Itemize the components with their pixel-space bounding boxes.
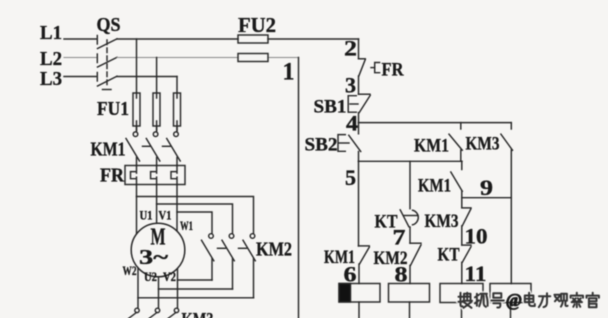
wire KM2 left column down [211,259,213,281]
wire phase C drop [176,77,178,94]
svg-text:7: 7 [393,225,406,250]
svg-text:11: 11 [465,261,487,286]
wire KM2 right column down [253,259,255,298]
wire KM2 middle column down [232,259,234,290]
wire node 2 drop [358,39,360,58]
svg-text:FR: FR [100,165,124,187]
contact KM3 (node 9 to 10) [425,198,472,232]
svg-text:V2: V2 [163,269,176,284]
svg-text:U1: U1 [140,208,153,223]
wire node 11 to coil KM2 [461,262,463,283]
coil KT (time relay, with filled block) [339,284,380,303]
svg-text:L3: L3 [40,68,62,90]
contactor KM2 delta contacts [202,234,293,261]
wire node 3 [358,76,360,94]
wire V2 to KM2 left column [178,279,213,281]
svg-text:FU2: FU2 [238,13,276,37]
node L3 [40,68,62,90]
svg-text:FU1: FU1 [97,98,129,120]
wire node 9 rail [462,197,512,199]
svg-text:KM3: KM3 [182,309,214,318]
wire motor U2 down [158,277,160,308]
wire node 5 to KM1 NC [358,161,360,246]
watermark 搜狐号@电力观察官 [459,290,599,310]
svg-text:SB2: SB2 [305,134,338,155]
wire node 9 [461,191,463,198]
svg-text:QS: QS [97,14,121,36]
svg-text:8: 8 [395,261,408,286]
node L2 [40,48,62,70]
fuse FU2 [238,13,276,62]
wire W2 to KM2 right column [138,297,254,299]
wire KM1 to node 5 rail [460,150,462,161]
wire node 4 [358,113,360,123]
coil KM1 [490,284,531,303]
wire FU2a to node 2 corner [268,38,359,40]
wire L3 lead [64,76,96,78]
wire L2 lead [64,57,96,59]
wire node 5 to KT [409,161,411,208]
svg-text:W1: W1 [180,218,193,233]
node 9 [480,175,493,200]
svg-text:W2: W2 [123,263,137,278]
node 2 [344,35,357,60]
relay contact FR (NC) [359,59,404,81]
svg-text:SB1: SB1 [314,96,347,117]
svg-text:5: 5 [345,165,356,190]
wire U2 to KM2 middle column [159,288,233,290]
node 3 [345,73,356,98]
wire phase B drop [156,58,158,94]
wire node 8 to coil KM3 [409,265,411,283]
contact KM1 (NC, above node 6) [324,246,369,268]
pushbutton SB1 (stop, NC) [314,94,371,117]
node 1 [283,59,295,86]
wire FR to motor V1 [156,185,158,224]
time relay contact KT (delayed NO) [375,210,419,233]
wire tap U1-phase to KM2 right column [137,197,254,234]
contact KM3 interlock (node 4) [466,123,513,155]
wire KT to KM2 [409,227,411,243]
wire node 4 rail [359,122,512,124]
wire KM1 to FR [137,158,178,166]
wire motor V2 down [177,269,179,309]
coil KM2 [440,284,483,303]
svg-text:1: 1 [283,59,295,86]
motor M 3~ [123,208,194,284]
contactor KM3 star contacts [129,308,214,318]
wire FR to motor U1 [136,185,138,234]
wire node 6 to coil KT [358,264,360,284]
svg-text:V1: V1 [159,208,172,223]
node 8 [395,261,408,286]
wire below coil KM3 [409,302,411,318]
contact KM1 self-hold (NO, node 4 to 5) [414,123,462,157]
fuse FU1 [97,93,181,131]
wire L1 to FU2 [117,38,238,40]
contact KT (node 10 to 11) [438,245,472,266]
svg-text:2: 2 [344,35,357,60]
node 10 [465,223,488,248]
node 6 [344,262,357,287]
svg-text:KM1: KM1 [91,139,126,161]
wire KM3 branch down [510,150,512,284]
wire FR to motor W1 [176,185,178,231]
wire motor W2 down [137,268,139,308]
wire node 10 [461,226,463,245]
svg-text:KM1: KM1 [418,176,451,197]
svg-text:U2: U2 [144,269,157,284]
svg-text:4: 4 [346,111,358,136]
node L1 [40,22,62,44]
wire below coil KT [358,302,360,318]
svg-text:6: 6 [344,262,357,287]
node 5 [345,165,356,190]
wire L1 lead [64,38,96,40]
svg-text:KT: KT [438,245,460,266]
wire tap W1-phase to KM2 left column [177,212,212,234]
thermal relay FR heater box [100,165,185,187]
wire L3 run [117,76,177,78]
wire FU2b to node 1 corner [268,57,299,59]
svg-text:KM2: KM2 [256,239,292,261]
pushbutton SB2 (start, NO) [305,123,361,156]
node 7 [393,225,406,250]
svg-text:L2: L2 [40,48,62,70]
svg-text:3: 3 [345,73,356,98]
node 11 [465,261,487,286]
wire phase A drop [136,39,138,93]
contact KM2 interlock (NC) [374,243,422,269]
svg-text:KM3: KM3 [466,134,500,155]
wire tap V1-phase to KM2 middle column [157,204,233,234]
coil KM3 [389,284,430,303]
svg-text:3~: 3~ [139,245,168,269]
svg-text:L1: L1 [40,22,62,44]
svg-text:FR: FR [382,60,404,81]
svg-text:KM1: KM1 [414,136,449,157]
disconnect switch QS [97,14,121,90]
wire below coil KM1 [510,303,512,318]
svg-text:9: 9 [480,175,493,200]
svg-text:@: @ [506,290,522,310]
contact KM1 (NO, node 5 to 9) [418,161,462,196]
wire node 5 rail [359,160,463,162]
wire 1 vertical rail [298,58,300,318]
wire L2 to FU2 [117,57,238,59]
contactor KM1 main contacts [91,132,181,161]
svg-text:KM3: KM3 [425,211,459,232]
wire below coil KM2 [461,303,463,318]
node 4 [346,111,358,136]
wire node 5 [358,152,360,162]
